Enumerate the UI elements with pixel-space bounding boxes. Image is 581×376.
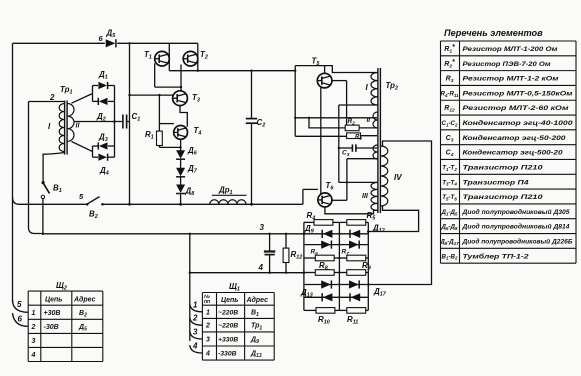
wire column elbow (339, 159, 377, 201)
svg-text:4: 4 (258, 263, 264, 272)
diode D5 (99, 29, 117, 48)
wire connector riser (189, 233, 191, 341)
resistor R4 (304, 211, 340, 225)
wire T3 base (128, 94, 172, 96)
resistor R9 (339, 261, 370, 275)
svg-text:Резистор МЛТ-2-60 кОм: Резистор МЛТ-2-60 кОм (463, 105, 569, 112)
transformer Tr2 winding II lower (373, 145, 377, 159)
svg-text:Резистор ПЭВ-7-20 Ом: Резистор ПЭВ-7-20 Ом (463, 61, 551, 68)
wire diode row3 (304, 284, 368, 286)
wire line 3 (42, 223, 304, 235)
svg-text:Резистор МЛТ-0,5-150кОм: Резистор МЛТ-0,5-150кОм (463, 90, 573, 97)
connector table Shch1 (202, 282, 274, 360)
diode D9 row1 left (304, 224, 332, 238)
wire bridge mid rail (338, 222, 340, 310)
wire T4 emitter (179, 139, 181, 150)
svg-text:пп: пп (204, 299, 210, 305)
svg-text:1: 1 (193, 300, 198, 309)
svg-text:II: II (367, 117, 371, 124)
resistor R6 (304, 249, 340, 261)
wire bridge left rail (303, 222, 306, 310)
capacitor C2 (246, 71, 265, 206)
wire bracket right (113, 86, 116, 158)
switch B1 (41, 181, 62, 234)
svg-text:Транзистор П4: Транзистор П4 (463, 179, 529, 186)
svg-text:Диод полупроводниковый Д305: Диод полупроводниковый Д305 (462, 208, 570, 216)
svg-text:3: 3 (32, 338, 36, 345)
wire T6 emitter bottom (325, 207, 377, 214)
wire T3 to T4 (180, 106, 187, 127)
transformer Tr2 winding I (366, 73, 378, 106)
label Tr1 (60, 85, 72, 96)
wire d6-d7 (180, 159, 182, 168)
inductor Dr1 (210, 186, 247, 205)
wire T5 emitter to T6 (320, 87, 322, 193)
wire vertical B jog (308, 117, 345, 128)
wire T1 base (155, 64, 181, 88)
diode row3 right (349, 280, 359, 288)
svg-text:R3: R3 (355, 134, 362, 141)
diode D17 row4 right (350, 287, 387, 301)
wire d8 to line (179, 193, 182, 205)
resistor R7 (339, 249, 368, 261)
wire top rail +30V (net 6) (13, 42, 198, 44)
diode D13 row4 left (300, 288, 332, 301)
wire T2 collector vertical (197, 43, 199, 70)
transformer Tr1 core (65, 101, 68, 155)
wire Tr1 primary top (29, 101, 65, 103)
svg-text:3: 3 (193, 328, 198, 337)
capacitor C3 (338, 144, 377, 157)
svg-text:5: 5 (17, 300, 22, 309)
transformer Tr2 core (378, 68, 381, 213)
svg-text:2: 2 (205, 323, 210, 330)
svg-text:Конденсатор эгц-500-20: Конденсатор эгц-500-20 (463, 149, 563, 157)
svg-text:Резистор МЛТ-1-200 Ом: Резистор МЛТ-1-200 Ом (463, 46, 558, 53)
diode D7 (176, 164, 198, 177)
svg-text:Транзистор П210: Транзистор П210 (463, 194, 543, 201)
transistor T2 (183, 50, 208, 66)
resistor R12 (283, 233, 302, 274)
wire Tr1 primary bottom to B1 (43, 153, 64, 182)
label terminal 2 (49, 93, 55, 102)
parts list title (444, 28, 543, 38)
connector table Shch2 (28, 281, 103, 362)
diode row2 left (321, 241, 331, 249)
wire line 4 (190, 272, 304, 274)
wire T5 top (295, 66, 377, 74)
wire bracket left top pair (92, 86, 94, 102)
transistor T5 (312, 57, 332, 88)
svg-text:4: 4 (192, 342, 198, 351)
svg-text:Конденсатор эгц-40-1000: Конденсатор эгц-40-1000 (463, 119, 573, 127)
resistor R5 (339, 211, 376, 225)
wire winding IV bottom out (368, 206, 418, 232)
svg-text:3: 3 (206, 337, 210, 344)
switch B2 (79, 192, 104, 220)
svg-text:Адрес: Адрес (73, 296, 96, 304)
transformer Tr1 primary winding I (48, 104, 64, 152)
wire C1 rail vertical (128, 42, 131, 206)
wire bracket left bottom pair (92, 146, 94, 157)
wire Dr1 output line (103, 203, 303, 205)
transformer Tr1 secondary winding II (68, 103, 81, 141)
svg-text:Цепь: Цепь (221, 297, 238, 304)
capacitor C4 (258, 233, 276, 274)
transistor T1 (144, 50, 169, 66)
svg-text:Цепь: Цепь (45, 297, 62, 304)
svg-text:IV: IV (394, 173, 402, 182)
wire hook pin6 (13, 313, 29, 326)
parts list table (439, 41, 576, 263)
svg-text:~220В: ~220В (218, 309, 238, 316)
svg-text:-30В: -30В (44, 324, 59, 331)
wire diode row2 (304, 244, 368, 246)
svg-text:Транзистор П210: Транзистор П210 (463, 164, 543, 171)
wire hook pin5 (13, 300, 29, 312)
wire winding III top (347, 181, 377, 183)
svg-text:6: 6 (18, 315, 23, 324)
transistor T3 (173, 91, 200, 106)
diode D3 (93, 133, 115, 150)
wire B2 feed line (net 5) (13, 197, 88, 204)
svg-text:4: 4 (205, 351, 210, 358)
resistor R1 (145, 94, 181, 147)
wire secondary taps (72, 94, 123, 152)
svg-text:Адрес: Адрес (246, 296, 269, 304)
wire Tr1 terminal2 down (29, 102, 45, 234)
wire winding II top (294, 117, 377, 119)
diode row1 right (350, 224, 385, 238)
svg-text:4: 4 (31, 352, 36, 359)
transformer Tr2 winding III (362, 182, 378, 210)
diode D2 (93, 98, 115, 123)
diode D4 (93, 154, 115, 177)
svg-text:-330В: -330В (218, 351, 237, 358)
wire T2 base to T3 (180, 65, 182, 91)
wire T1 collector vertical (168, 43, 170, 70)
wire vertical A (294, 66, 296, 137)
diode D6 (176, 146, 198, 159)
resistor R11 (339, 308, 368, 326)
wire T6 base (303, 189, 318, 204)
wire T5 right (332, 81, 347, 126)
svg-text:1: 1 (32, 310, 36, 317)
svg-text:Тумблер ТП-1-2: Тумблер ТП-1-2 (463, 252, 529, 260)
diode D8 (176, 185, 194, 198)
svg-text:3: 3 (260, 223, 265, 232)
wire winding I bottom column (339, 105, 377, 182)
transformer Tr2 winding IV (381, 146, 402, 206)
diode row2 right (349, 241, 359, 249)
label Tr2 (386, 81, 398, 92)
capacitor C1 (123, 112, 140, 129)
wire diode row1 (304, 233, 368, 235)
wire collector bus (169, 70, 295, 72)
diode row3 left (321, 280, 331, 288)
wire T6 right (332, 199, 347, 201)
svg-text:+30В: +30В (44, 310, 61, 317)
resistor R3 (295, 128, 377, 141)
diode D1 (93, 70, 115, 89)
wire hooks Shch1 (190, 300, 203, 353)
wire bridge right rail (367, 222, 370, 310)
wire left border vertical (12, 43, 14, 302)
wire winding IV top out (368, 141, 431, 285)
svg-text:1: 1 (206, 309, 210, 316)
svg-text:Диод полупроводниковый Д226Б: Диод полупроводниковый Д226Б (462, 238, 573, 246)
svg-text:Резистор МЛТ-1-2 кОм: Резистор МЛТ-1-2 кОм (463, 76, 559, 83)
resistor R2 (345, 118, 359, 131)
svg-text:2: 2 (49, 93, 55, 102)
transistor T4 (174, 125, 202, 139)
wire d7-d8 (180, 177, 182, 185)
transformer Tr2 winding II upper (367, 112, 378, 128)
svg-text:2: 2 (192, 314, 198, 323)
wire diode row4 (304, 296, 368, 298)
svg-text:Диод полупроводниковый Д814: Диод полупроводниковый Д814 (462, 223, 570, 231)
transistor T6 (318, 181, 334, 207)
svg-text:Перечень элементов: Перечень элементов (444, 28, 543, 38)
svg-text:2: 2 (31, 324, 36, 331)
svg-text:~220В: ~220В (218, 323, 238, 330)
resistor R8 (304, 261, 340, 275)
svg-text:+330В: +330В (218, 337, 238, 344)
resistor R10 (304, 308, 340, 326)
svg-text:Конденсатор эгц-50-200: Конденсатор эгц-50-200 (463, 134, 566, 142)
